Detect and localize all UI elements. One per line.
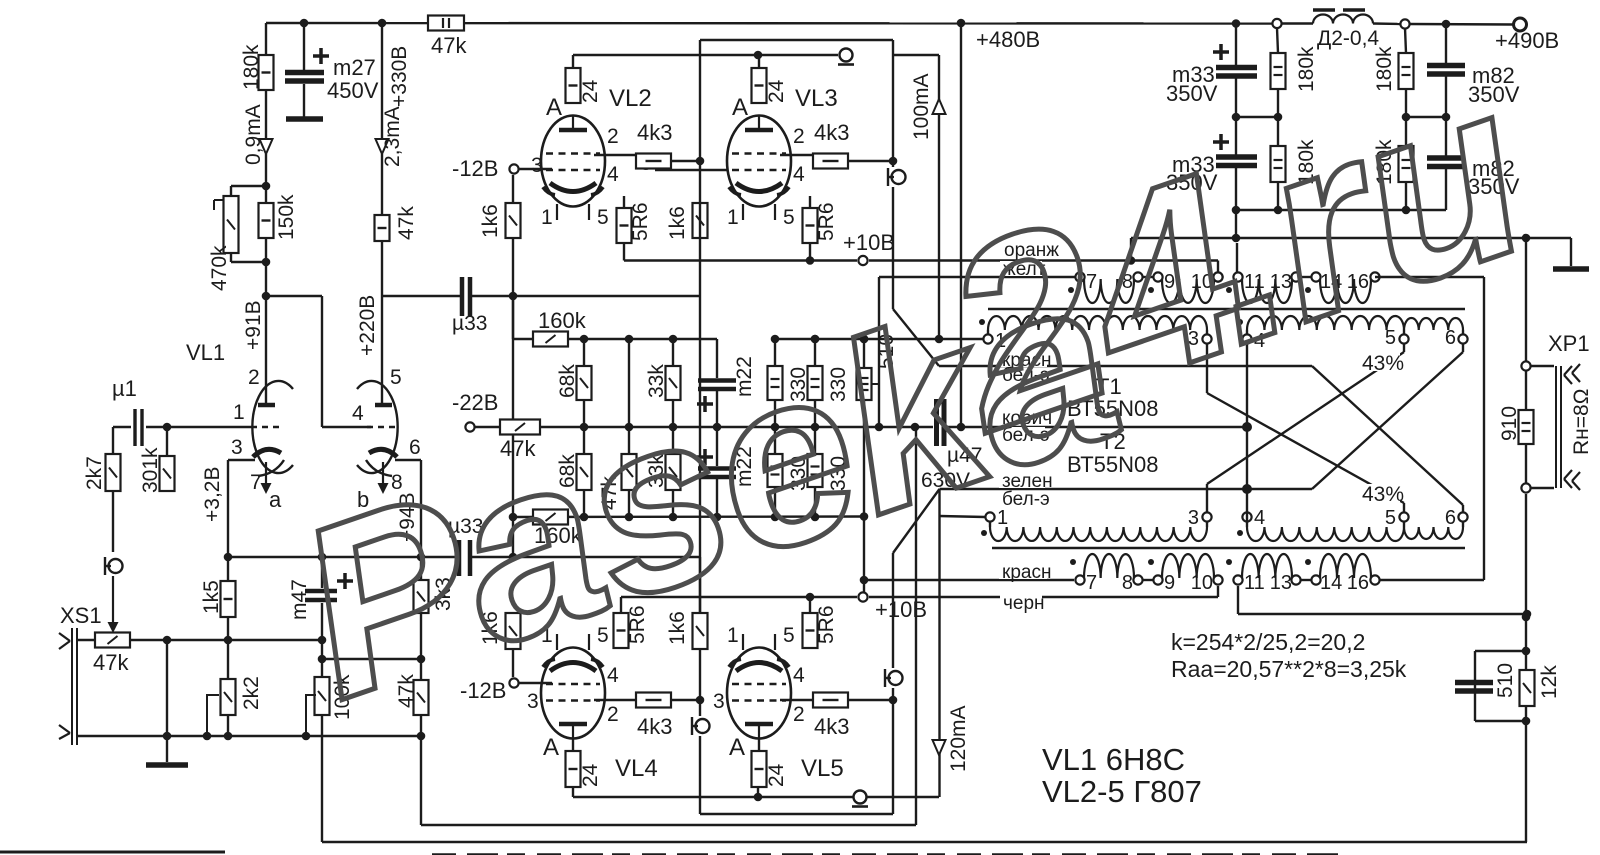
svg-text:6: 6 <box>1445 507 1456 529</box>
svg-text:VL4: VL4 <box>615 755 658 782</box>
svg-text:1: 1 <box>727 624 739 647</box>
svg-text:301k: 301k <box>139 447 162 493</box>
svg-text:510: 510 <box>1494 663 1517 698</box>
svg-text:A: A <box>543 734 559 761</box>
svg-text:m27: m27 <box>333 55 376 80</box>
svg-text:4k3: 4k3 <box>814 714 849 739</box>
svg-text:+220В: +220В <box>356 295 379 356</box>
svg-text:VL5: VL5 <box>801 755 844 782</box>
svg-text:2k2: 2k2 <box>240 676 263 710</box>
svg-text:Rн=8Ω: Rн=8Ω <box>1570 389 1593 455</box>
svg-text:черн: черн <box>1003 593 1045 614</box>
svg-text:10: 10 <box>1191 572 1213 594</box>
svg-text:-22В: -22В <box>452 390 498 415</box>
svg-text:47k: 47k <box>431 33 467 58</box>
svg-text:24: 24 <box>579 763 602 787</box>
svg-text:11: 11 <box>1244 572 1265 594</box>
svg-text:VL3: VL3 <box>795 85 838 112</box>
svg-text:4: 4 <box>1254 507 1265 529</box>
svg-text:k=254*2/25,2=20,2: k=254*2/25,2=20,2 <box>1171 629 1365 655</box>
svg-text:VL1 6Н8С: VL1 6Н8С <box>1042 742 1185 777</box>
svg-text:5R6: 5R6 <box>815 605 838 644</box>
svg-text:A: A <box>732 94 748 121</box>
svg-text:5: 5 <box>597 206 609 229</box>
svg-text:4: 4 <box>793 664 805 687</box>
svg-text:+3,2В: +3,2В <box>201 467 224 522</box>
svg-text:µ33: µ33 <box>452 312 487 335</box>
svg-text:+490В: +490В <box>1495 28 1559 53</box>
svg-text:VL2-5 Г807: VL2-5 Г807 <box>1042 774 1202 809</box>
svg-text:3: 3 <box>531 154 543 177</box>
svg-text:8: 8 <box>1122 572 1133 594</box>
svg-text:1: 1 <box>541 206 553 229</box>
svg-text:180k: 180k <box>240 44 263 90</box>
svg-text:+91В: +91В <box>242 300 265 350</box>
svg-text:13: 13 <box>1270 572 1292 594</box>
svg-text:5: 5 <box>390 366 402 389</box>
svg-text:47k: 47k <box>395 206 418 240</box>
svg-text:5R6: 5R6 <box>815 202 838 241</box>
svg-text:2: 2 <box>793 703 805 726</box>
svg-text:24: 24 <box>579 79 602 103</box>
svg-text:24: 24 <box>765 763 788 787</box>
svg-text:5: 5 <box>783 206 795 229</box>
svg-text:43%: 43% <box>1362 483 1404 506</box>
svg-text:4k3: 4k3 <box>637 714 672 739</box>
svg-text:3: 3 <box>713 690 725 713</box>
svg-text:470k: 470k <box>208 245 231 291</box>
svg-text:4: 4 <box>793 163 805 186</box>
svg-text:7: 7 <box>1086 572 1097 594</box>
svg-text:+10В: +10В <box>843 230 895 255</box>
svg-text:красн: красн <box>1002 562 1051 583</box>
svg-text:4k3: 4k3 <box>814 120 849 145</box>
svg-text:2,3mA: 2,3mA <box>381 106 404 167</box>
svg-text:150k: 150k <box>275 194 298 240</box>
svg-text:2: 2 <box>793 125 805 148</box>
svg-text:24: 24 <box>765 79 788 103</box>
svg-text:-12В: -12В <box>452 156 498 181</box>
svg-text:XP1: XP1 <box>1548 331 1590 356</box>
svg-text:3: 3 <box>231 436 243 459</box>
svg-text:1k6: 1k6 <box>479 204 502 238</box>
svg-text:4: 4 <box>607 664 619 687</box>
svg-text:5: 5 <box>783 624 795 647</box>
svg-text:100mA: 100mA <box>910 73 933 140</box>
svg-text:+330В: +330В <box>388 46 411 107</box>
svg-text:Raa=20,57**2*8=3,25k: Raa=20,57**2*8=3,25k <box>1171 656 1407 682</box>
svg-text:1: 1 <box>233 401 245 424</box>
svg-text:47k: 47k <box>93 650 129 675</box>
svg-text:12k: 12k <box>1538 665 1561 699</box>
svg-text:VL2: VL2 <box>609 85 652 112</box>
svg-text:1k5: 1k5 <box>200 580 223 614</box>
svg-text:3: 3 <box>527 690 539 713</box>
svg-text:A: A <box>729 734 745 761</box>
svg-text:4: 4 <box>607 163 619 186</box>
svg-text:2k7: 2k7 <box>83 456 106 490</box>
svg-text:+480В: +480В <box>976 27 1040 52</box>
svg-text:2: 2 <box>607 703 619 726</box>
svg-text:5: 5 <box>1385 507 1396 529</box>
svg-text:1: 1 <box>727 206 739 229</box>
svg-text:5R6: 5R6 <box>629 202 652 241</box>
svg-text:VL1: VL1 <box>186 340 225 365</box>
svg-text:4: 4 <box>352 402 364 425</box>
svg-text:1k6: 1k6 <box>666 206 689 240</box>
svg-text:9: 9 <box>1164 572 1175 594</box>
svg-text:0,9mA: 0,9mA <box>242 104 265 165</box>
svg-text:16: 16 <box>1347 572 1369 594</box>
svg-text:A: A <box>546 94 562 121</box>
svg-text:XS1: XS1 <box>60 603 102 628</box>
svg-text:4k3: 4k3 <box>637 120 672 145</box>
svg-text:450V: 450V <box>327 78 379 103</box>
svg-text:14: 14 <box>1320 572 1342 594</box>
svg-text:910: 910 <box>1498 406 1521 441</box>
svg-text:+10В: +10В <box>875 597 927 622</box>
svg-text:350V: 350V <box>1166 81 1218 106</box>
svg-text:7: 7 <box>250 471 262 494</box>
svg-text:3: 3 <box>1188 507 1199 529</box>
svg-text:160k: 160k <box>538 308 587 333</box>
svg-text:2: 2 <box>607 125 619 148</box>
svg-text:Д2-0,4: Д2-0,4 <box>1317 27 1379 50</box>
svg-text:120mA: 120mA <box>947 705 970 772</box>
svg-text:2: 2 <box>248 366 260 389</box>
svg-text:µ1: µ1 <box>112 376 137 401</box>
